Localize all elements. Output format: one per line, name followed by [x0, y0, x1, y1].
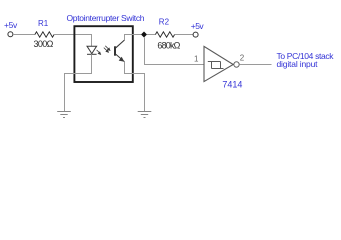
wire collector to junction node A — [125, 35, 142, 41]
resistor R2 — [155, 32, 174, 37]
ground (left) — [57, 112, 71, 118]
inverter U1 7414 triangle — [204, 46, 233, 81]
svg-text:300Ω: 300Ω — [34, 39, 54, 49]
LED light arrows 2 and 3 — [104, 46, 110, 52]
svg-text:+5v: +5v — [191, 21, 205, 31]
svg-text:1: 1 — [194, 55, 199, 64]
resistor R1 — [35, 32, 54, 37]
output label To PC/104 stack digital input — [277, 51, 335, 69]
wire from +5v terminal to R1 — [13, 34, 35, 36]
svg-text:2: 2 — [240, 54, 245, 63]
LED D1 (emitter diode) — [87, 46, 97, 54]
terminal circle +5v right — [193, 32, 198, 37]
wire R1 to LED anode — [54, 35, 92, 47]
svg-text:680kΩ: 680kΩ — [157, 40, 180, 50]
phototransistor Q1 collector diagonal — [116, 40, 125, 48]
hysteresis symbol — [208, 62, 224, 69]
ground (right) — [138, 112, 152, 118]
svg-text:R2: R2 — [159, 18, 170, 27]
phototransistor Q1 emitter diagonal with arrow — [116, 54, 125, 62]
svg-text:Optointerrupter Switch: Optointerrupter Switch — [67, 13, 145, 23]
wire LED cathode to left ground — [65, 54, 92, 111]
wire emitter to right ground — [125, 62, 145, 111]
LED light arrow 1 — [97, 50, 101, 55]
svg-text:digital input: digital input — [277, 59, 319, 69]
wire R2 to +5v terminal — [175, 34, 194, 36]
svg-text:+5v: +5v — [4, 20, 18, 30]
terminal circle +5v left — [8, 32, 13, 37]
wire junction node A to 7414 input — [145, 38, 204, 65]
junction node A dot — [141, 32, 147, 38]
wire junction to R2 — [147, 34, 156, 36]
optointerrupter package box — [74, 26, 132, 82]
inverter output bubble — [234, 62, 239, 67]
phototransistor Q1 base bar — [114, 46, 116, 55]
wire 7414 output — [240, 64, 272, 66]
svg-text:7414: 7414 — [222, 80, 242, 90]
svg-text:R1: R1 — [38, 19, 49, 28]
